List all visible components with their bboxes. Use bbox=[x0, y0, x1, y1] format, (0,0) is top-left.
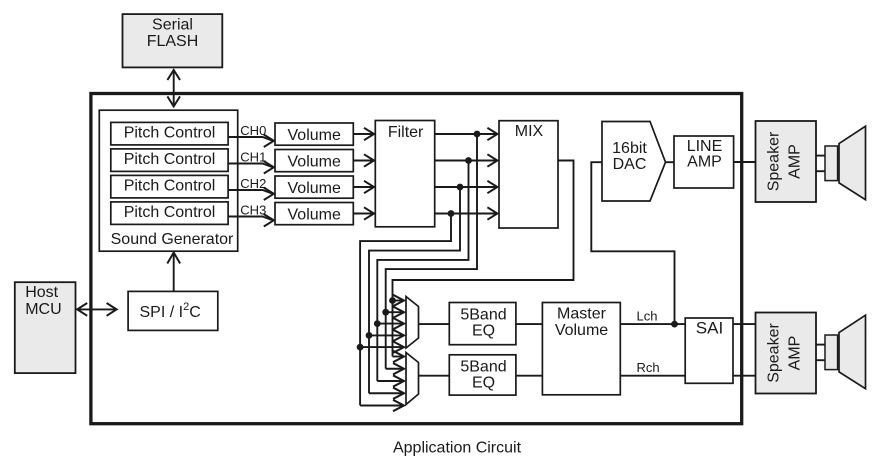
svg-text:5Band: 5Band bbox=[460, 358, 506, 375]
svg-text:AMP: AMP bbox=[687, 154, 722, 171]
svg-text:Volume: Volume bbox=[288, 127, 341, 144]
svg-text:Master: Master bbox=[557, 306, 607, 323]
svg-text:Volume: Volume bbox=[288, 207, 341, 224]
svg-text:CH3: CH3 bbox=[240, 203, 266, 218]
svg-text:Pitch Control: Pitch Control bbox=[124, 177, 216, 194]
svg-text:EQ: EQ bbox=[472, 375, 495, 392]
svg-text:5Band: 5Band bbox=[460, 306, 506, 323]
svg-text:Speaker: Speaker bbox=[766, 131, 783, 191]
svg-text:Rch: Rch bbox=[637, 360, 660, 375]
svg-text:EQ: EQ bbox=[472, 323, 495, 340]
svg-text:CH2: CH2 bbox=[240, 176, 266, 191]
svg-text:16bit: 16bit bbox=[612, 140, 647, 157]
svg-text:AMP: AMP bbox=[787, 336, 804, 371]
svg-text:CH0: CH0 bbox=[240, 123, 266, 138]
svg-text:Filter: Filter bbox=[388, 124, 424, 141]
svg-text:Volume: Volume bbox=[288, 180, 341, 197]
svg-text:Volume: Volume bbox=[288, 154, 341, 171]
svg-text:SAI: SAI bbox=[696, 319, 723, 338]
svg-text:CH1: CH1 bbox=[240, 150, 266, 165]
svg-text:AMP: AMP bbox=[787, 144, 804, 179]
svg-text:SPI / I2C: SPI / I2C bbox=[140, 301, 201, 321]
svg-text:Pitch Control: Pitch Control bbox=[124, 151, 216, 168]
svg-text:FLASH: FLASH bbox=[147, 33, 199, 50]
svg-text:Sound Generator: Sound Generator bbox=[111, 231, 234, 248]
svg-text:Serial: Serial bbox=[152, 17, 193, 34]
svg-text:MIX: MIX bbox=[515, 123, 544, 140]
svg-text:Pitch Control: Pitch Control bbox=[124, 204, 216, 221]
svg-text:DAC: DAC bbox=[613, 156, 647, 173]
svg-text:Lch: Lch bbox=[637, 309, 658, 324]
svg-text:Application Circuit: Application Circuit bbox=[393, 439, 522, 456]
svg-text:Host: Host bbox=[25, 284, 58, 301]
svg-text:MCU: MCU bbox=[25, 301, 61, 318]
svg-text:Pitch Control: Pitch Control bbox=[124, 124, 216, 141]
svg-text:LINE: LINE bbox=[687, 138, 723, 155]
svg-text:Speaker: Speaker bbox=[766, 323, 783, 383]
svg-text:Volume: Volume bbox=[555, 322, 608, 339]
